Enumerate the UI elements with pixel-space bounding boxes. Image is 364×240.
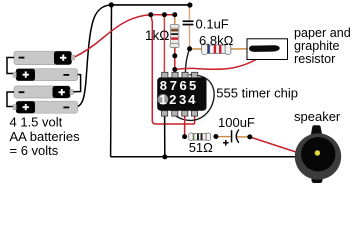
wire: red curve from graphite resistor to pin7 lead junction [175,52,268,69]
wire: pin3 output red lead down to 51 ohm [184,115,186,137]
wire: tan junction to 6.8k resistor [190,48,202,50]
resistor R3 51 ohm (horizontal) [189,133,211,141]
wire: tan lead 100uF to output dot [237,136,250,138]
wire: tan drop from top rail to 0.1uF [188,5,190,21]
svg-text:1kΩ: 1kΩ [145,28,169,43]
wire: bottom negative rail to speaker [111,156,297,158]
svg-text:1: 1 [159,92,166,107]
pin 5 stub top [192,72,198,77]
wire: red Vcc rail [151,14,175,16]
battery B3 body [14,86,73,98]
wire: red drop Vcc to pin8 [163,15,165,73]
svg-text:8: 8 [160,78,167,93]
wire: series link B2 minus to B3 plus [73,75,80,92]
battery B4 body [13,101,78,113]
pin 6 stub top [182,72,188,77]
svg-text:2: 2 [169,92,176,107]
wire: left vertical negative drop [110,5,113,157]
node: junction Vcc rail left [148,12,153,17]
svg-text:51Ω: 51Ω [189,140,213,155]
wire: black from junction to pin6 [185,49,189,73]
battery B1 body [14,51,75,64]
speaker [295,125,341,183]
node: junction pin7 lead upper [172,53,177,58]
pin 2 stub bottom [172,111,178,116]
svg-text:speaker: speaker [294,109,341,124]
wire: tan 6.8k resistor to graphite bar [231,48,249,50]
svg-text:7: 7 [170,78,177,93]
node: junction 51 ohm right [213,134,218,139]
wire: series link B3 minus to B4 plus [7,92,14,107]
wire: red from 100uF to speaker [250,137,299,153]
node: junction top rail right [187,2,192,7]
node: junction pin7 lead lower [172,67,177,72]
svg-text:0.1uF: 0.1uF [196,17,229,32]
node: junction Vcc rail 1k [172,12,177,17]
resistor R1 1k ohm (vertical) [170,24,179,47]
wire: black loop pin2 around right side of chip to pin6 [175,75,214,121]
pin 8 stub top [162,72,168,77]
wire: pin1 ground lead to bottom rail [164,115,166,157]
svg-text:paper and: paper and [294,26,351,40]
svg-text:= 6 volts: = 6 volts [10,143,59,158]
wire: tan lead Vcc rail to 1k resistor top [174,15,176,25]
svg-text:4: 4 [188,92,196,107]
pin 3 stub bottom [182,111,188,116]
node: junction bottom rail pin1 [162,154,167,159]
svg-text:5: 5 [189,78,196,93]
pin 1 marker circle [158,94,169,105]
battery B2 body [13,69,78,81]
node: junction top rail left [109,2,114,7]
svg-text:graphite: graphite [294,39,340,53]
wire: red lead 1k resistor bottom to pin7 [174,48,176,73]
node: junction Vcc rail pin8 [162,12,167,17]
node: junction 100uF output [247,134,252,139]
pin 4 stub bottom [191,111,197,116]
svg-text:resistor: resistor [294,52,335,66]
svg-text:100uF: 100uF [218,115,255,130]
svg-text:AA batteries: AA batteries [10,129,81,144]
wire: battery pack negative curve from B4 to top rail [78,5,112,107]
resistor R2 6.8k ohm (horizontal) [202,44,231,55]
wire: tan from 0.1uF down to junction [188,25,190,49]
wire: battery pack positive red curve from B1 to Vcc rail [74,15,151,58]
svg-text:6: 6 [179,78,186,93]
wire: top negative rail [111,4,190,6]
graphite resistor bar [249,45,280,52]
paper and graphite resistor box [247,39,288,60]
svg-text:6.8kΩ: 6.8kΩ [199,33,234,48]
wire: pin4 reset lead [194,115,196,124]
wire: series link B1 minus to B2 plus [7,58,14,74]
svg-text:4 1.5 volt: 4 1.5 volt [10,115,63,130]
wire: red drop from Vcc rail down left side of chip to pin4 [151,15,195,124]
svg-text:555 timer chip: 555 timer chip [216,86,298,101]
capacitor C2 100uF polarized [223,130,239,146]
wire: tan lead 51 ohm to 100uF plus plate [216,136,231,138]
pin 1 stub bottom [162,111,168,116]
op-amp U1: 555 timer chip body [157,77,206,110]
capacitor C1 0.1uF plates [183,20,194,25]
node: junction 0.1uF / 6.8k [187,46,192,51]
node: junction 51 ohm left [182,134,187,139]
svg-text:3: 3 [179,92,186,107]
pin 7 stub top [172,72,178,77]
